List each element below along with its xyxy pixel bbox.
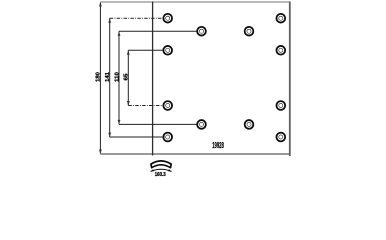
row2 connector <box>119 30 198 32</box>
rivet hole r2c2 <box>197 27 206 36</box>
dimension line 1 (overall width 180) <box>99 3 101 154</box>
rivet hole r2c3 <box>245 27 254 36</box>
rivet hole r4c4 <box>276 101 285 110</box>
dimension line 2 (141) <box>109 18 111 137</box>
row1 centerline connector (dash-dot) <box>110 17 165 19</box>
dimension line 4 (65) <box>127 50 129 105</box>
lining segment cross-section icon <box>151 161 171 168</box>
rivet hole r3c4 <box>276 46 285 55</box>
rivet hole r6c1 <box>163 133 172 142</box>
rivet hole r4c1 <box>163 101 172 110</box>
svg-text:110: 110 <box>114 72 120 82</box>
rivet hole r1c1 <box>163 14 172 23</box>
svg-text:65: 65 <box>124 74 130 81</box>
rivet hole r5c3 <box>245 120 254 129</box>
row3 connector <box>128 49 163 51</box>
backing plate top edge with extension line <box>100 1 289 3</box>
svg-text:180: 180 <box>96 72 102 82</box>
svg-text:19928: 19928 <box>212 141 224 150</box>
row4 centerline connector (dash-dot) <box>128 105 163 107</box>
rivet hole r5c2 <box>197 120 206 129</box>
svg-text:160.3: 160.3 <box>155 172 166 177</box>
rivet hole r3c1 <box>163 46 172 55</box>
backing plate right edge <box>289 2 291 157</box>
rivet hole r6c4 <box>276 133 285 142</box>
radius dimension arc with arrows <box>151 169 172 171</box>
rivet hole r1c4 <box>276 14 285 23</box>
backing plate left edge <box>152 2 154 156</box>
backing plate bottom edge with extension line <box>100 153 290 155</box>
row5 connector <box>119 123 198 125</box>
dimension line 3 (110) <box>118 31 120 124</box>
svg-text:141: 141 <box>105 72 111 82</box>
row6 connector <box>110 136 165 138</box>
